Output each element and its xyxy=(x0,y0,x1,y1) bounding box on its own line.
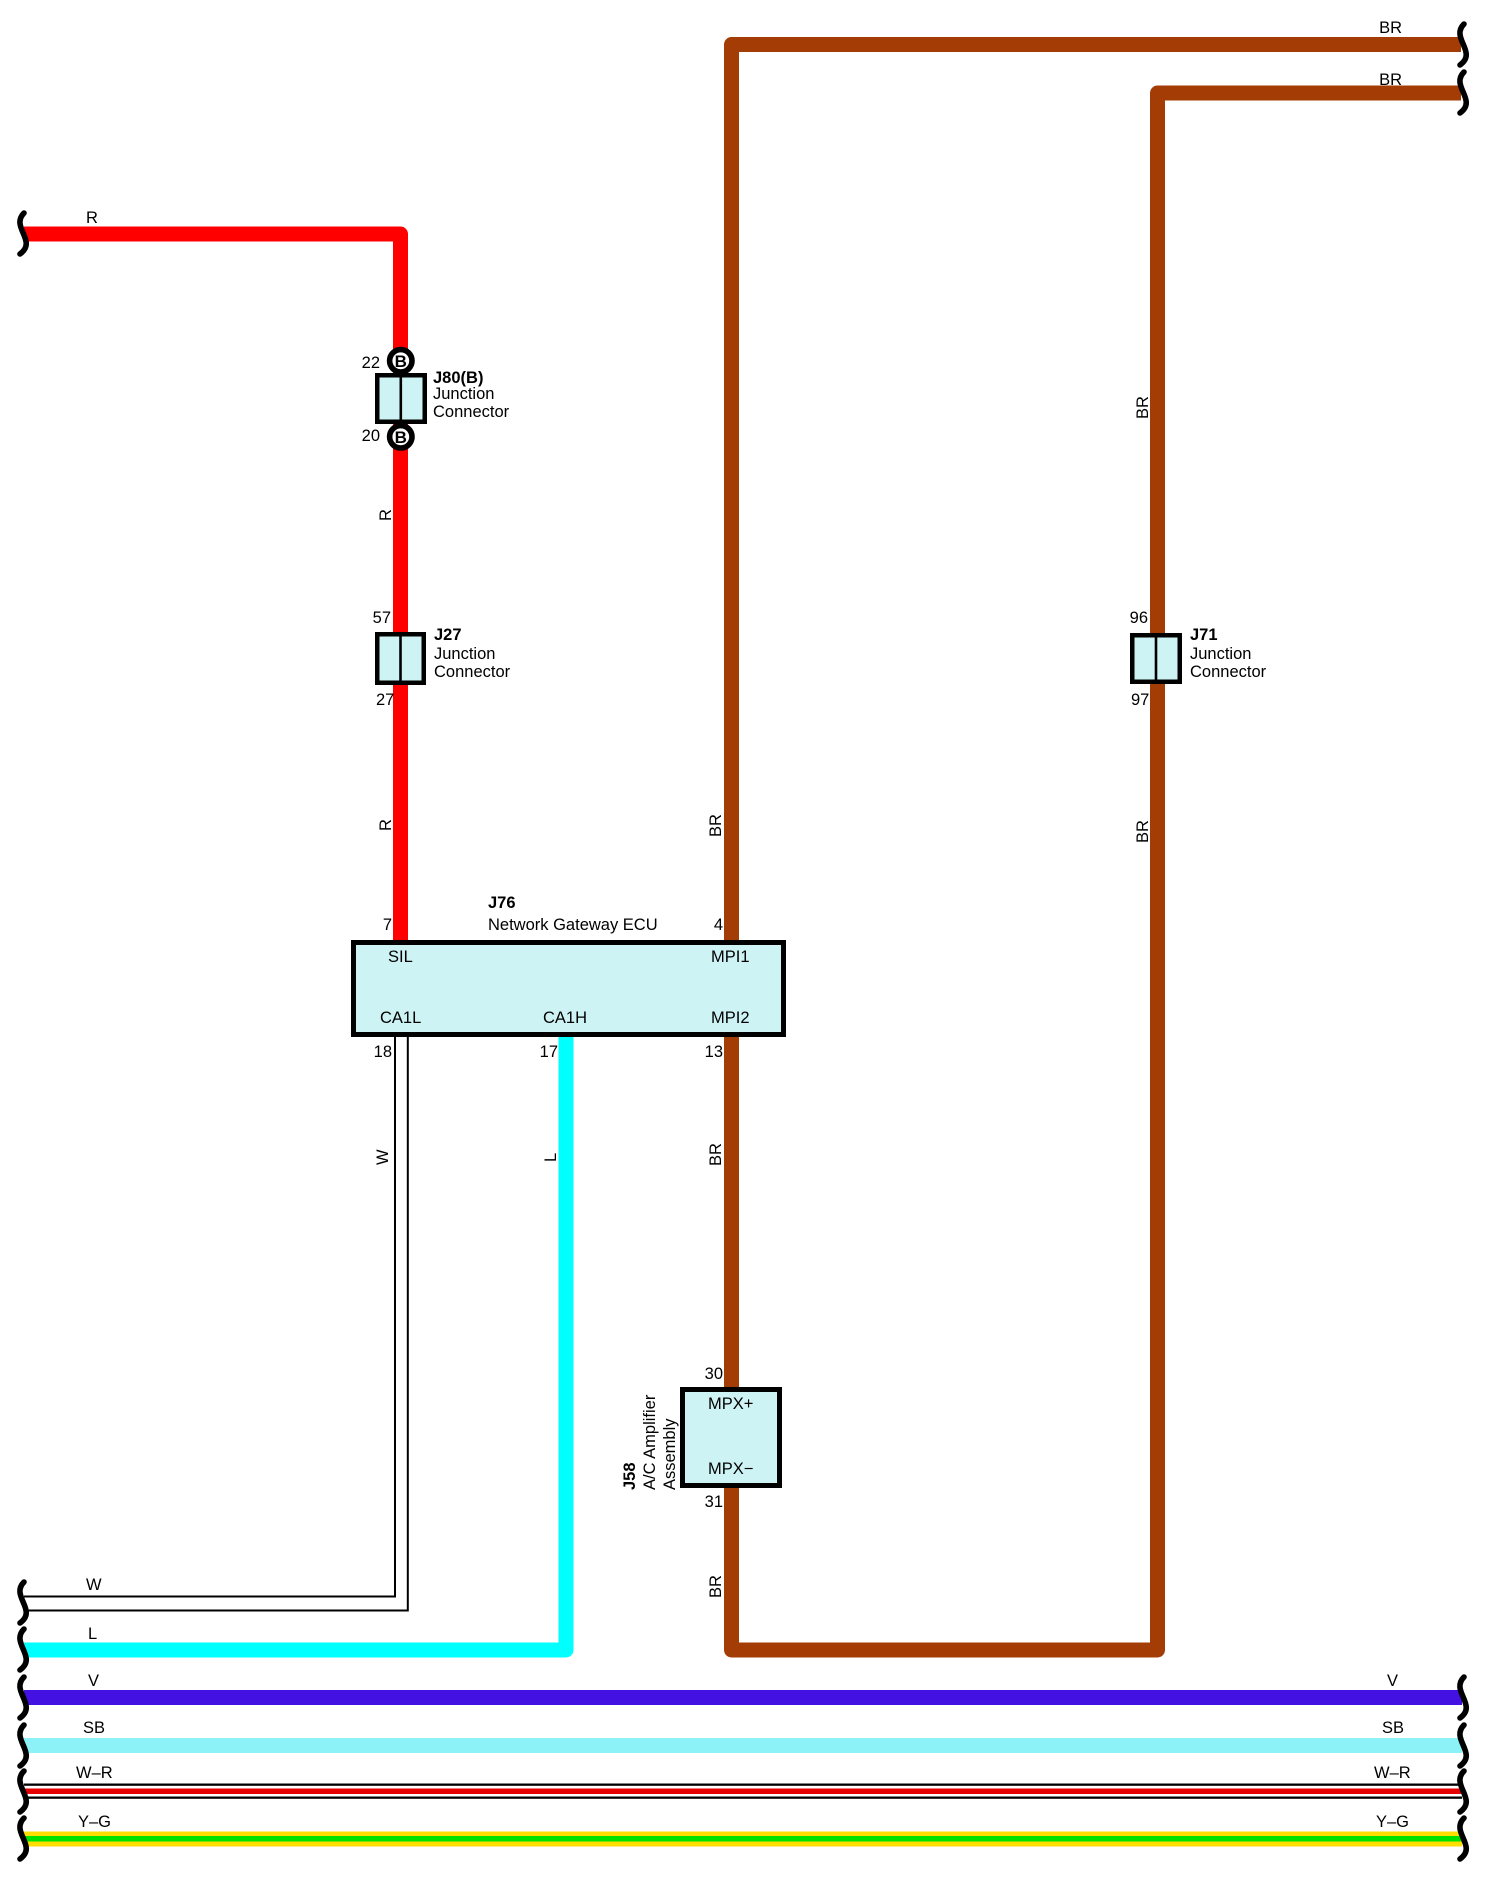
squiggle V right xyxy=(1460,1677,1466,1718)
label Y-G right xyxy=(1376,1814,1409,1830)
label J76 xyxy=(488,895,516,911)
label R rotated 2 xyxy=(378,819,394,831)
wire BR brown: one continuous run with rounded corners xyxy=(732,45,1462,1651)
label BR rotated brown2 b xyxy=(1135,820,1151,843)
wire W inner black edge xyxy=(24,1037,395,1597)
pin 31 xyxy=(705,1494,723,1510)
pin 13 xyxy=(705,1044,723,1060)
wire R xyxy=(24,234,401,942)
pin 30 xyxy=(705,1366,723,1382)
label Y-G left xyxy=(78,1814,111,1830)
svg-text:B: B xyxy=(395,352,407,371)
squiggle SB right xyxy=(1460,1725,1466,1766)
label BR rotated brown1 a xyxy=(708,814,724,837)
label V right xyxy=(1387,1673,1398,1689)
svg-text:B: B xyxy=(395,428,407,447)
label BR rotated brown2 a xyxy=(1135,396,1151,419)
wire W-R red stripe xyxy=(24,1789,1462,1795)
connector circle B bottom (pin 20) xyxy=(390,426,412,448)
label MPI1 xyxy=(711,949,750,965)
label W-R left xyxy=(76,1765,113,1781)
wire Y-G yellow band xyxy=(24,1832,1462,1847)
label J71 Connector xyxy=(1190,664,1266,680)
label J58 A/C Amplifier Assembly rotated xyxy=(620,1395,680,1490)
label CA1H xyxy=(543,1010,587,1026)
wire W-R bottom black edge xyxy=(24,1797,1462,1799)
pin 4 xyxy=(714,917,723,933)
label BR rotated brown1 b xyxy=(708,1143,724,1166)
squiggle Y-G right xyxy=(1460,1818,1466,1859)
junction connector J71 box xyxy=(1132,635,1180,682)
junction connector J27 box xyxy=(377,634,424,683)
label BR top2 xyxy=(1379,72,1402,88)
label L rotated xyxy=(543,1153,559,1162)
wire W outer black edge xyxy=(24,1037,408,1611)
squiggle R left xyxy=(20,213,26,254)
squiggle SB left xyxy=(20,1725,26,1766)
label R horizontal wire xyxy=(86,210,98,226)
connector circle B top (pin 22) xyxy=(390,350,412,372)
label J80(B) xyxy=(433,370,483,386)
label J27 Junction xyxy=(434,646,495,662)
wire Y-G green stripe xyxy=(24,1836,1462,1842)
pin 97 xyxy=(1131,692,1149,708)
label MPI2 xyxy=(711,1010,750,1026)
label BR top1 xyxy=(1379,20,1402,36)
label J71 Junction xyxy=(1190,646,1251,662)
squiggle W left xyxy=(20,1582,26,1623)
A/C amplifier J58 box xyxy=(683,1390,780,1486)
pin 7 xyxy=(383,917,392,933)
label Network Gateway ECU xyxy=(488,917,658,933)
squiggle BR1 right xyxy=(1460,24,1466,65)
label J27 Connector xyxy=(434,664,510,680)
wire W vertical white fill xyxy=(394,1034,409,1611)
pin 18 xyxy=(374,1044,392,1060)
squiggle Y-G left xyxy=(20,1818,26,1859)
wire W horizontal white fill xyxy=(24,1597,406,1611)
wire SB xyxy=(24,1738,1462,1753)
label SB left xyxy=(83,1720,105,1736)
squiggle W-R right xyxy=(1460,1771,1466,1812)
squiggle BR2 right xyxy=(1460,72,1466,113)
pin 96 xyxy=(1130,610,1148,626)
label L horizontal xyxy=(88,1626,97,1642)
squiggle V left xyxy=(20,1677,26,1718)
label SIL xyxy=(388,949,413,965)
label R rotated 1 xyxy=(378,509,394,521)
pin 20 xyxy=(362,428,380,444)
label J27 xyxy=(434,627,462,643)
label W horizontal xyxy=(86,1577,102,1593)
pin 17 xyxy=(540,1044,558,1060)
wire W-R top black edge xyxy=(24,1784,1462,1786)
label J71 xyxy=(1190,627,1218,643)
label W rotated xyxy=(375,1149,391,1165)
label W-R right xyxy=(1374,1765,1411,1781)
pin 57 xyxy=(373,610,391,626)
wire L xyxy=(24,1035,566,1650)
junction connector J80(B) box xyxy=(377,375,425,422)
label MPX+ xyxy=(708,1396,753,1412)
label J80(B) Junction xyxy=(433,386,494,402)
squiggle L left xyxy=(20,1629,26,1670)
pin 27 xyxy=(376,692,394,708)
label J80(B) Connector xyxy=(433,404,509,420)
label SB right xyxy=(1382,1720,1404,1736)
ECU J76 box xyxy=(354,943,784,1035)
pin 22 xyxy=(362,355,380,371)
label V left xyxy=(88,1673,99,1689)
label MPX- xyxy=(708,1461,753,1477)
label CA1L xyxy=(380,1010,421,1026)
squiggle W-R left xyxy=(20,1771,26,1812)
label BR rotated brown1 c xyxy=(708,1575,724,1598)
wire V xyxy=(24,1690,1462,1705)
